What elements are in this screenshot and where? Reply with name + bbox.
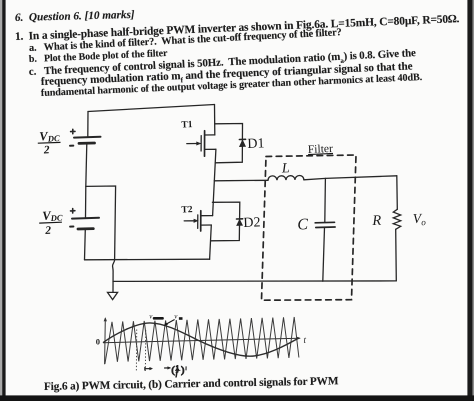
svg-text:D2: D2: [243, 215, 261, 231]
label + of B2: [71, 209, 75, 213]
svg-text:L: L: [281, 161, 291, 176]
wire inductor to load corner: [304, 176, 397, 180]
svg-text:C: C: [297, 216, 309, 233]
fraction bar lower: [39, 221, 62, 224]
svg-text:f: f: [176, 371, 179, 378]
wire battery B2 bottom lead: [84, 229, 87, 260]
svg-text:VDC: VDC: [42, 208, 63, 224]
svg-text:D1: D1: [247, 136, 265, 152]
label VDC/2 lower: [42, 208, 63, 237]
label VDC/2 upper: [39, 128, 60, 156]
svg-text:T1: T1: [181, 120, 193, 130]
annotation arrow: [164, 320, 175, 326]
svg-text:T2: T2: [181, 205, 193, 215]
sine control signal: [103, 323, 299, 356]
svg-text:2: 2: [43, 144, 51, 156]
svg-text:v: v: [174, 313, 178, 321]
battery B2: [72, 218, 99, 229]
wire battery B1 top lead: [87, 112, 89, 138]
wire midpoint tap: [86, 186, 116, 292]
transistor T1: [187, 131, 216, 157]
label + of B1: [71, 129, 75, 133]
dotted line 1: [135, 330, 137, 371]
scanner edge bars: [0, 0, 2, 401]
label (1/f): [164, 364, 186, 377]
label v m: [174, 313, 182, 321]
wire load top lead: [396, 176, 399, 210]
wire top rail: [88, 105, 215, 112]
wire load bottom lead: [395, 229, 398, 281]
svg-text:Vo: Vo: [413, 211, 427, 228]
diode D1: [215, 124, 246, 163]
axis arrow top: [104, 318, 107, 322]
waveform vertical axis: [104, 319, 107, 365]
wire bottom rail to load: [113, 280, 396, 283]
svg-text:t: t: [304, 335, 307, 345]
resistor R: [393, 209, 400, 229]
svg-text:): ): [181, 365, 184, 376]
svg-text:VDC: VDC: [39, 128, 60, 144]
svg-text:0: 0: [96, 336, 100, 346]
wire capacitor top lead: [324, 178, 327, 222]
transistor T2: [184, 211, 212, 231]
svg-text:(: (: [172, 365, 175, 376]
svg-text:R: R: [371, 213, 382, 229]
inductor L: [268, 175, 304, 180]
wire T1 drain riser: [214, 105, 216, 136]
waveform horizontal axis: [103, 338, 299, 343]
filter dashed box: [262, 155, 357, 300]
wire phase leg (T1 emitter to T2 collector): [213, 149, 216, 215]
capacitor C: [315, 222, 335, 227]
waveform axes: [103, 318, 300, 365]
question text block: [14, 9, 134, 24]
wire capacitor bottom lead: [323, 227, 325, 281]
label - of B2: [70, 226, 73, 228]
wire between batteries: [86, 144, 87, 219]
label - of B1: [70, 145, 73, 147]
figure caption: [44, 375, 339, 393]
dotted line 2: [144, 330, 146, 371]
svg-text:Filter: Filter: [308, 143, 334, 156]
interval marker arrow: [145, 367, 153, 371]
triangular carrier wave: [105, 317, 299, 364]
wire bottom left rail: [85, 258, 210, 261]
axis arrow right: [297, 337, 301, 340]
svg-text:v: v: [149, 312, 153, 320]
wire output node line: [214, 179, 268, 182]
ground: [108, 292, 118, 299]
label v carrier: [149, 312, 164, 320]
svg-text:2: 2: [44, 225, 52, 237]
fraction bar upper: [38, 141, 61, 144]
wire T2 emitter down: [210, 225, 212, 259]
diode D2: [211, 202, 243, 241]
battery B1: [74, 137, 101, 144]
